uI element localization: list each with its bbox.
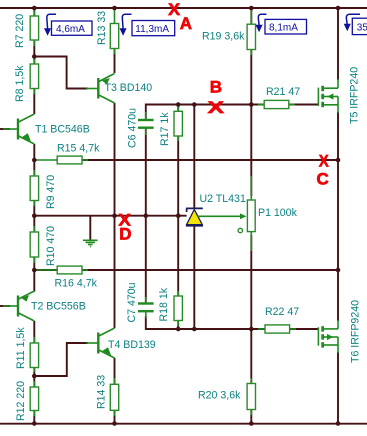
svg-text:R13 33: R13 33 bbox=[96, 11, 108, 45]
svg-text:R22 47: R22 47 bbox=[265, 306, 299, 318]
wire output column x=338 bbox=[337, 8, 339, 80]
potentiometer P1 bbox=[238, 176, 255, 251]
ground bbox=[83, 240, 98, 246]
wire column x=114 T3 collector to T4 collector bbox=[114, 103, 116, 328]
svg-text:A: A bbox=[180, 14, 192, 33]
resistor R18 bbox=[174, 291, 182, 326]
resistor R10 bbox=[30, 226, 38, 263]
junction dots top rail bbox=[32, 6, 37, 11]
junction dot output row270 bbox=[336, 268, 341, 273]
svg-text:T4 BD139: T4 BD139 bbox=[108, 339, 156, 351]
wire top positive rail bbox=[0, 7, 367, 9]
svg-text:R7 220: R7 220 bbox=[14, 14, 26, 48]
junction dots bottom rail bbox=[32, 421, 37, 426]
svg-text:R15 4,7k: R15 4,7k bbox=[57, 143, 100, 155]
wire R11 junction to T4 base bbox=[34, 343, 88, 376]
wire R8 junction to T3 base bbox=[34, 57, 88, 89]
svg-text:R9 470: R9 470 bbox=[45, 175, 57, 209]
resistor R11 bbox=[30, 337, 38, 372]
wire R17 top lead column bbox=[177, 105, 179, 112]
junction dot output row160 bbox=[336, 158, 341, 163]
wire ground branch bbox=[89, 216, 91, 240]
svg-text:R10 470: R10 470 bbox=[45, 226, 57, 266]
wire R14 to bottom rail bbox=[114, 410, 116, 423]
svg-text:C7 470u: C7 470u bbox=[126, 282, 138, 322]
wire T4 emitter to R14 bbox=[114, 358, 116, 384]
svg-text:T3 BD140: T3 BD140 bbox=[105, 82, 153, 94]
svg-text:C6 470u: C6 470u bbox=[127, 108, 139, 148]
wire R18 bottom lead column bbox=[177, 321, 179, 330]
svg-text:B: B bbox=[210, 77, 222, 96]
wire T1 input base bbox=[0, 128, 10, 130]
wire gate row y=104.5 bbox=[146, 105, 319, 121]
shunt regulator U1 TL431 bbox=[186, 208, 203, 225]
resistor R17 bbox=[174, 105, 182, 142]
svg-text:R19 3,6k: R19 3,6k bbox=[202, 31, 245, 43]
resistor R13 bbox=[110, 10, 118, 54]
resistor R12 bbox=[30, 381, 38, 416]
wire TL431 column upper bbox=[193, 105, 195, 209]
svg-text:R21 47: R21 47 bbox=[266, 86, 300, 98]
svg-text:X: X bbox=[208, 98, 225, 117]
svg-text:35: 35 bbox=[357, 23, 367, 34]
svg-text:R20 3,6k: R20 3,6k bbox=[198, 390, 241, 402]
resistor R15 bbox=[34, 156, 88, 164]
svg-text:T1 BC546B: T1 BC546B bbox=[35, 124, 90, 136]
resistor R14 bbox=[110, 378, 118, 416]
svg-text:T6 IRFP9240: T6 IRFP9240 bbox=[350, 300, 362, 363]
junction dots gate row bbox=[176, 102, 181, 107]
wire ground row y=216 bbox=[34, 215, 186, 217]
wire T2 input base bbox=[0, 305, 10, 307]
wire C6 C7 column x=146 bbox=[145, 129, 147, 304]
svg-text:R8 1,5k: R8 1,5k bbox=[14, 65, 26, 102]
wire lower gate row y=329 bbox=[146, 316, 319, 329]
junction dots left column bbox=[32, 54, 37, 59]
wire U2 adjust arrow to P1 bbox=[198, 213, 246, 219]
transistor T2 bbox=[3, 291, 34, 321]
wire feedback row y=270 bbox=[34, 269, 338, 271]
resistor R16 bbox=[34, 266, 88, 274]
wire column x=114 R13 to T3 emitter bbox=[114, 49, 116, 74]
wire R17 R18 column x=178 bbox=[177, 136, 179, 296]
resistor R8 bbox=[30, 58, 38, 94]
transistor T3 bbox=[86, 74, 115, 104]
ammeter probe AM4 bbox=[344, 14, 367, 34]
svg-text:R11 1,5k: R11 1,5k bbox=[15, 327, 27, 369]
wire feedback row y=160 bbox=[82, 159, 338, 161]
ammeter probe AM3 bbox=[256, 14, 307, 34]
resistor R20 bbox=[247, 378, 255, 415]
svg-text:R14 33: R14 33 bbox=[96, 375, 108, 409]
resistor R22 bbox=[258, 325, 296, 333]
transistor T4 bbox=[86, 328, 115, 358]
svg-text:11,3mA: 11,3mA bbox=[135, 24, 169, 35]
resistor R19 bbox=[247, 10, 255, 55]
mosfet T6 bbox=[318, 320, 338, 353]
resistor R9 bbox=[30, 170, 38, 206]
svg-text:R18 1k: R18 1k bbox=[158, 287, 170, 321]
svg-text:U2 TL431: U2 TL431 bbox=[200, 193, 246, 205]
svg-text:8,1mA: 8,1mA bbox=[269, 23, 298, 34]
resistor R7 bbox=[30, 10, 38, 46]
junction dots lower gate row bbox=[176, 327, 181, 332]
svg-text:D: D bbox=[119, 225, 131, 244]
svg-text:P1 100k: P1 100k bbox=[258, 207, 298, 219]
svg-text:4,6mA: 4,6mA bbox=[56, 24, 85, 35]
ammeter probe AM1 bbox=[44, 14, 92, 36]
svg-text:X: X bbox=[319, 152, 330, 171]
svg-text:T5 IRFP240: T5 IRFP240 bbox=[349, 67, 361, 124]
wire left column x=34 bbox=[33, 8, 35, 114]
mosfet T5 bbox=[318, 79, 338, 113]
wire TL431 column lower bbox=[193, 227, 195, 330]
svg-text:C: C bbox=[317, 169, 329, 188]
svg-text:R17 1k: R17 1k bbox=[159, 112, 171, 146]
svg-text:T2 BC556B: T2 BC556B bbox=[31, 301, 86, 313]
junction dots ground row bbox=[112, 213, 117, 218]
svg-text:R16 4,7k: R16 4,7k bbox=[55, 278, 98, 290]
transistor T1 bbox=[3, 114, 34, 144]
capacitor C6 bbox=[138, 112, 154, 135]
capacitor C7 bbox=[138, 297, 154, 318]
resistor R21 bbox=[258, 100, 295, 108]
wire bottom negative rail bbox=[0, 423, 367, 425]
ammeter probe AM2 bbox=[120, 14, 175, 36]
wire R19 P1 R20 column x=251 bbox=[250, 8, 252, 24]
svg-text:R12 220: R12 220 bbox=[15, 381, 27, 421]
